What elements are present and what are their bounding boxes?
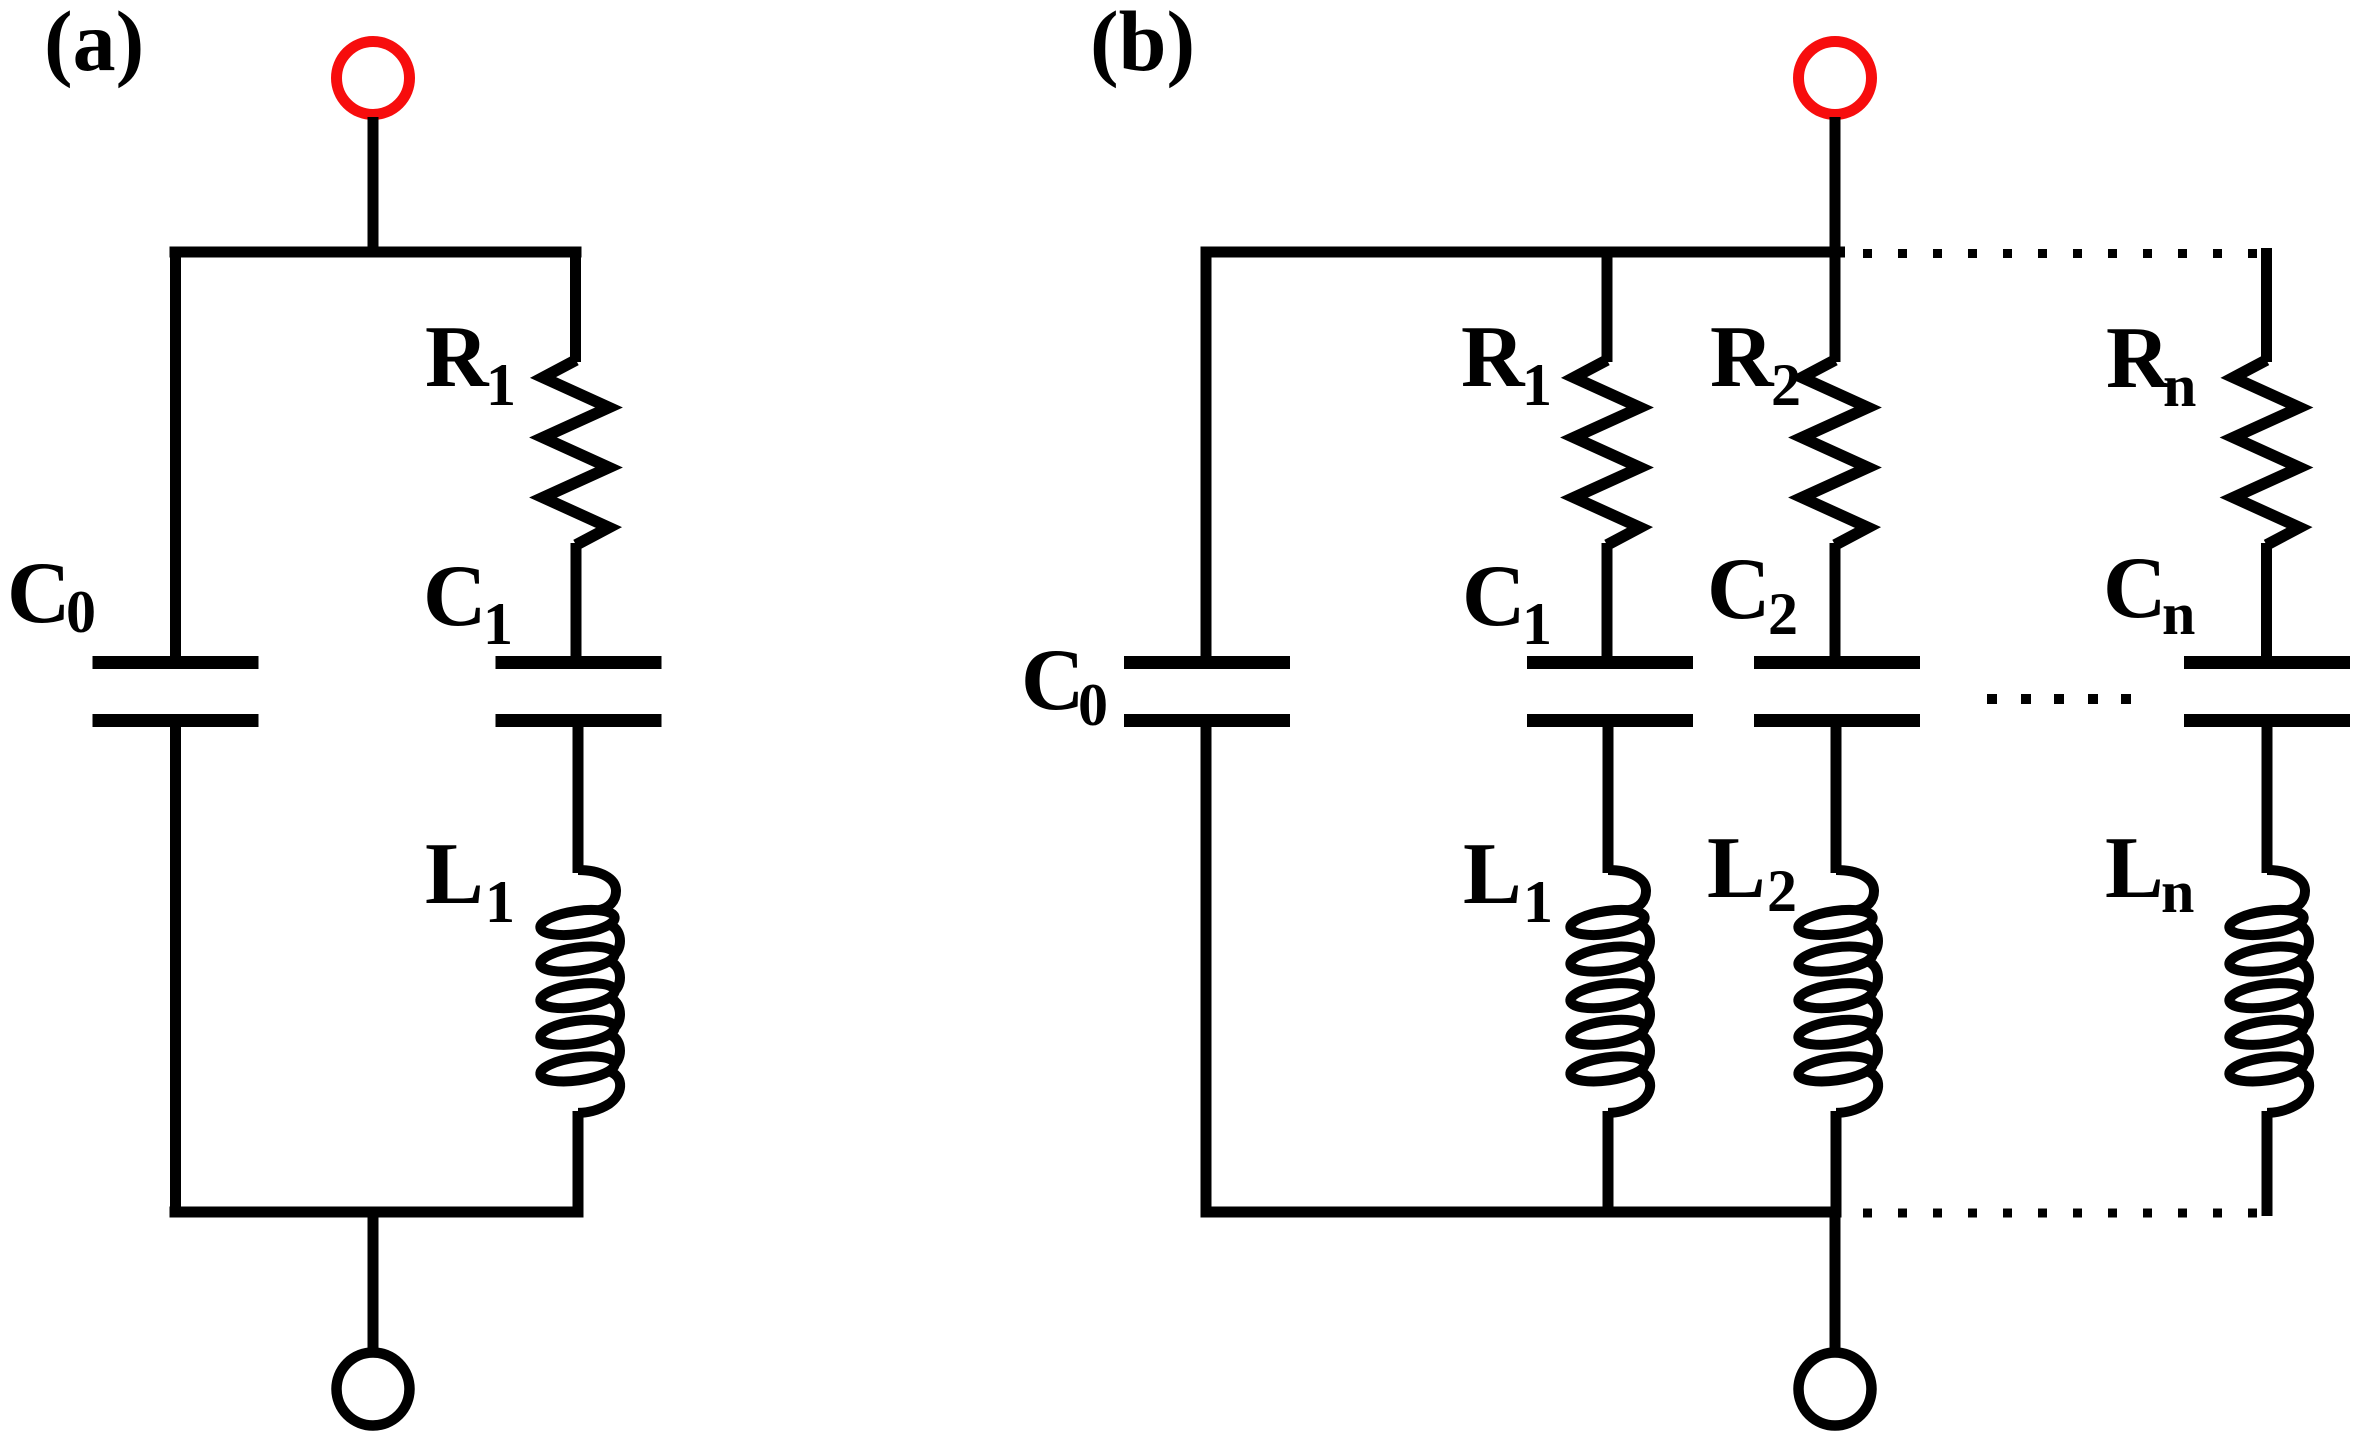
svg-text:C: C — [1021, 632, 1085, 729]
wire (dotted continuation of bottom rail) — [1863, 1209, 2257, 1218]
label Cn — [2103, 540, 2195, 647]
wire — [170, 1207, 582, 1218]
svg-text:L: L — [2105, 820, 2164, 917]
svg-text:(b): (b) — [1090, 0, 1195, 89]
capacitor Cn — [2184, 656, 2350, 727]
svg-text:R: R — [1461, 309, 1526, 406]
svg-text:2: 2 — [1771, 352, 1801, 418]
inductor L1 — [1569, 870, 1650, 1113]
wire — [1602, 543, 1613, 662]
inductor L2 — [1797, 870, 1878, 1113]
capacitor C2 — [1754, 656, 1920, 727]
wire — [1830, 1207, 1841, 1353]
wire — [570, 247, 581, 363]
svg-text:n: n — [2163, 353, 2196, 419]
wire — [1603, 721, 1614, 873]
wire — [1830, 247, 1841, 363]
wire — [1201, 247, 1212, 663]
resistor R1 — [543, 360, 609, 545]
wire — [170, 721, 181, 1218]
label C2 — [1707, 541, 1798, 647]
svg-text:L: L — [1463, 826, 1522, 923]
svg-text:L: L — [1707, 820, 1766, 917]
label L2 — [1707, 820, 1797, 924]
wire — [1602, 247, 1613, 363]
wire — [170, 247, 181, 663]
svg-text:1: 1 — [483, 591, 513, 657]
svg-text:R: R — [425, 309, 490, 406]
label Rn — [2106, 310, 2196, 419]
capacitor C1 — [1527, 656, 1693, 727]
svg-text:1: 1 — [1522, 591, 1552, 657]
wire — [1830, 117, 1841, 257]
wire — [1830, 543, 1841, 662]
wire — [573, 721, 584, 873]
svg-text:R: R — [2106, 310, 2171, 407]
label L1 — [1463, 826, 1553, 935]
svg-text:C: C — [1462, 548, 1526, 645]
label C0 — [7, 545, 96, 645]
capacitor C0 — [93, 656, 259, 727]
inductor L1 — [539, 870, 620, 1113]
wire — [170, 247, 582, 258]
terminal T3 (red, top of figure b) — [1799, 42, 1872, 115]
wire — [2261, 543, 2272, 662]
resistor Rn — [2234, 360, 2300, 545]
svg-text:n: n — [2161, 859, 2194, 925]
svg-text:(a): (a) — [44, 0, 144, 89]
label R1 — [1461, 309, 1552, 418]
label C1 — [1462, 548, 1552, 657]
wire — [2262, 721, 2273, 873]
svg-text:C: C — [1707, 541, 1771, 638]
capacitor C0 — [1124, 656, 1290, 727]
terminal T1 (red, top of figure a) — [337, 42, 410, 115]
wire (dotted continuation of top rail) — [1863, 249, 2257, 258]
svg-text:2: 2 — [1768, 581, 1798, 647]
svg-text:C: C — [7, 545, 71, 642]
svg-text:1: 1 — [486, 352, 516, 418]
terminal T4 (black, bottom of figure b) — [1799, 1353, 1872, 1426]
wire — [1201, 247, 1846, 258]
svg-text:1: 1 — [485, 869, 515, 935]
wire — [1201, 721, 1212, 1218]
svg-text:L: L — [425, 826, 484, 923]
svg-text:1: 1 — [1523, 869, 1553, 935]
svg-text:0: 0 — [1078, 672, 1108, 738]
wire — [368, 117, 379, 257]
inductor Ln — [2228, 870, 2309, 1113]
label C0 — [1021, 632, 1108, 738]
svg-text:2: 2 — [1767, 858, 1797, 924]
label Ln — [2105, 820, 2194, 925]
resistor R2 — [1802, 360, 1868, 545]
svg-text:C: C — [2103, 540, 2167, 637]
svg-text:R: R — [1710, 309, 1775, 406]
wire — [1831, 721, 1842, 873]
wire — [573, 1111, 584, 1218]
terminal T2 (black, bottom of figure a) — [337, 1353, 410, 1426]
wire — [2262, 1111, 2273, 1216]
label L1 — [425, 826, 515, 935]
wire — [1201, 1207, 1842, 1218]
svg-text:0: 0 — [66, 579, 96, 645]
wire — [368, 1207, 379, 1353]
svg-text:1: 1 — [1522, 352, 1552, 418]
label C1 — [423, 548, 513, 657]
svg-text:n: n — [2162, 581, 2195, 647]
label R2 — [1710, 309, 1801, 418]
wire — [571, 543, 582, 662]
wire — [1603, 1111, 1614, 1218]
capacitor C1 — [496, 656, 662, 727]
wire — [1831, 1111, 1842, 1218]
label R1 — [425, 309, 516, 418]
wire — [2261, 248, 2272, 362]
svg-text:C: C — [423, 548, 487, 645]
node ellipsis (middle dots) — [1987, 694, 2131, 704]
resistor R1 — [1574, 360, 1640, 545]
